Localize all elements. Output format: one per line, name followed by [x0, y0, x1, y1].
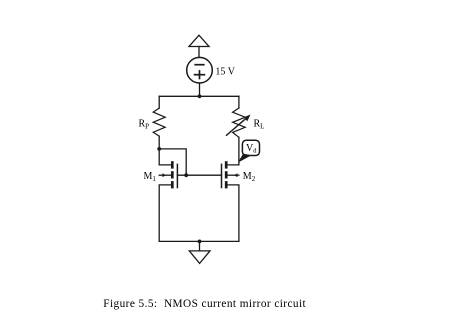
svg-text:RP: RP — [139, 119, 150, 131]
node gate junction — [184, 173, 188, 177]
resistor RL variable arrow — [227, 118, 248, 136]
transistor M1 gate plate — [176, 164, 178, 189]
transistor M1 bulk stub with arrow — [159, 174, 171, 176]
VDD supply arrow symbol — [189, 35, 209, 46]
transistor M2 channel bars — [225, 161, 228, 188]
svg-text:RL: RL — [254, 119, 265, 131]
wire VDD arrow to source — [198, 47, 200, 58]
transistor M2 gate plate — [221, 164, 223, 189]
ground — [189, 251, 210, 264]
wire rail down to M1 drain stub — [159, 149, 171, 165]
wire source to top rail — [199, 83, 201, 96]
voltage source V1 circle — [187, 57, 213, 83]
wire RP to drain node — [158, 136, 160, 149]
svg-text:M2: M2 — [243, 171, 256, 183]
wire diode connection drain to gate — [159, 149, 186, 175]
wire to ground — [199, 241, 201, 251]
wire bottom rail — [159, 240, 239, 242]
wire RL to M2 drain — [228, 137, 239, 165]
resistor RP — [153, 108, 165, 136]
svg-text:M1: M1 — [144, 171, 157, 183]
svg-text:Vd: Vd — [246, 143, 257, 155]
Vd callout tail — [238, 154, 252, 163]
svg-text:15 V: 15 V — [215, 67, 235, 78]
node top rail junction — [198, 94, 202, 98]
wire left drop to RP — [158, 96, 160, 108]
wire top rail — [159, 95, 239, 97]
transistor M2 source stub — [228, 185, 239, 242]
wire gate bus M1 to M2 — [177, 174, 221, 176]
node M1 drain junction — [157, 147, 161, 151]
svg-text:Figure 5.5: NMOS current mirr: Figure 5.5: NMOS current mirror circuit — [103, 298, 306, 310]
node ground junction — [198, 240, 202, 244]
wire right drop to RL — [238, 96, 240, 108]
transistor M2 bulk stub with arrow — [228, 174, 239, 176]
transistor M1 channel bars — [171, 161, 174, 188]
voltage source minus sign — [195, 64, 204, 66]
resistor RL — [233, 108, 246, 137]
transistor M1 source stub — [159, 185, 171, 242]
voltage source plus sign — [195, 71, 205, 79]
Vd callout bubble — [242, 140, 259, 155]
